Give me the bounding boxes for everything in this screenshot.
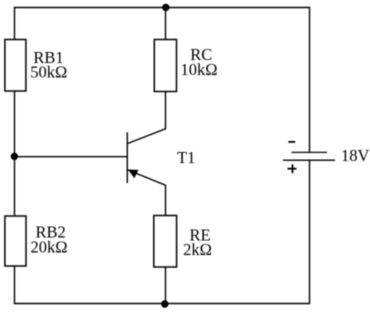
svg-text:T1: T1 [177,148,195,167]
svg-text:20kΩ: 20kΩ [30,237,67,256]
svg-text:10kΩ: 10kΩ [180,60,217,79]
svg-text:2kΩ: 2kΩ [183,240,212,259]
svg-text:50kΩ: 50kΩ [30,62,67,81]
svg-text:18V: 18V [341,146,370,165]
